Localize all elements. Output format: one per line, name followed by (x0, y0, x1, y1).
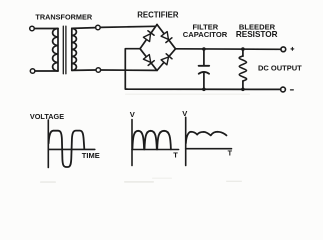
bridge edge lower-right (157, 49, 176, 71)
svg-text:TRANSFORMER: TRANSFORMER (35, 13, 92, 22)
wire capacitor top lead (203, 49, 205, 65)
wire AC bottom (101, 69, 156, 71)
svg-text:TIME: TIME (82, 151, 100, 160)
wire AC top (100, 26, 155, 27)
svg-text:CAPACITOR: CAPACITOR (183, 30, 228, 39)
resistor R1 zigzag (239, 56, 246, 81)
bridge edge upper-left (140, 25, 157, 49)
wire primary top lead (35, 28, 59, 30)
terminal primary top (30, 26, 35, 31)
scan smudge marks (40, 94, 250, 183)
waveform2 v-axis (131, 120, 133, 166)
transformer core (63, 26, 66, 74)
transformer secondary winding (72, 28, 77, 70)
bridge edge lower-left (140, 49, 157, 71)
capacitor C1 top plate (199, 65, 210, 67)
diode D3 (143, 55, 154, 66)
label FILTER CAPACITOR (183, 22, 228, 39)
junction dot capacitor bottom (202, 88, 206, 92)
svg-text:RECTIFIER: RECTIFIER (137, 11, 179, 20)
svg-text:VOLTAGE: VOLTAGE (30, 112, 64, 121)
bridge edge upper-right (157, 25, 176, 49)
junction dot resistor top (241, 47, 245, 51)
wire resistor top lead (242, 49, 244, 56)
terminal primary bottom (30, 69, 35, 74)
transformer primary winding (53, 29, 58, 72)
terminal secondary bottom (96, 68, 101, 73)
svg-text:T: T (173, 151, 178, 160)
wire primary bottom lead (35, 70, 58, 72)
wire capacitor bottom lead (203, 73, 205, 90)
waveform1 v-axis (47, 120, 49, 168)
junction dot capacitor top (202, 47, 206, 51)
wire secondary bottom lead (72, 69, 96, 71)
waveform2 rectified humps (132, 131, 171, 150)
svg-text:T: T (228, 149, 233, 158)
capacitor C1 curved plate (199, 72, 209, 74)
waveform3 h-axis (186, 148, 232, 150)
diode D2 (161, 32, 172, 43)
diode D4 (161, 54, 172, 65)
junction dot resistor bottom (241, 88, 245, 92)
svg-text:DC OUTPUT: DC OUTPUT (258, 64, 302, 73)
wire positive rail (176, 48, 281, 51)
waveform3 v-axis (185, 117, 187, 165)
label BLEEDER RESISTOR (236, 22, 278, 39)
wire resistor bottom lead (242, 81, 244, 89)
waveform2 h-axis (132, 149, 179, 151)
terminal output positive (281, 47, 286, 52)
diode D1 (143, 31, 154, 42)
waveform1 sine wave (49, 131, 85, 167)
svg-text:RESISTOR: RESISTOR (236, 30, 278, 39)
terminal secondary top (96, 25, 101, 30)
wire secondary top lead (72, 27, 96, 30)
minus sign (291, 89, 294, 91)
terminal output negative (281, 87, 286, 92)
wire negative bypass and bottom rail (125, 49, 280, 90)
waveform1 h-axis (48, 148, 95, 150)
waveform3 ripple wave (186, 132, 227, 143)
plus sign (291, 48, 294, 51)
